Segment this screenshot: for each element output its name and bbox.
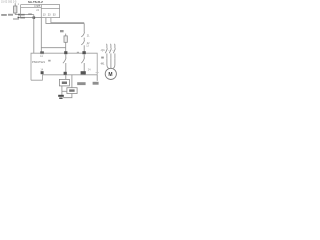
svg-text:Logik: Logik (34, 4, 41, 8)
svg-text:-Q1: -Q1 (100, 48, 105, 52)
estop contact S1 (81, 32, 84, 37)
label under wire (13, 18, 19, 20)
terminal 13 (64, 51, 67, 54)
wire top bus (21, 4, 42, 6)
wire coil to ground (61, 86, 63, 96)
motor M1 (105, 68, 116, 79)
relay contact K2 (83, 54, 85, 58)
relay contact K1 (65, 54, 67, 58)
label dash (48, 60, 50, 62)
vertical link wire (20, 5, 22, 18)
link dash 1 (108, 49, 109, 51)
wire motor feed 1 (107, 59, 109, 69)
safety relay box PSR outline (31, 53, 97, 80)
wire 0V drop (96, 75, 98, 81)
junction tick (96, 71, 99, 73)
label 24V left (1, 14, 7, 16)
fuse F1 (65, 34, 67, 36)
label terminal (60, 30, 64, 32)
pin tick 23 (77, 52, 79, 53)
wire horizontal mid (41, 47, 65, 49)
svg-text:-M1: -M1 (100, 62, 105, 66)
mark A1 (101, 57, 104, 59)
label 24VDC (77, 82, 85, 85)
wire label dash (28, 14, 32, 16)
wire BN (15, 14, 34, 16)
link dash 2 (112, 49, 113, 51)
wire aux to ground (63, 94, 72, 98)
sensor B1 (14, 3, 16, 6)
terminal 14 (64, 72, 67, 75)
wire right drop (83, 23, 85, 32)
node junction (33, 16, 36, 19)
wire coil drop (65, 75, 67, 80)
contactor pole 1 (105, 44, 108, 49)
contactor pole 3 (113, 44, 116, 49)
wire vertical from box left (40, 18, 42, 54)
aux box K2 (67, 88, 77, 94)
wire motor feed 3 (113, 59, 115, 69)
svg-text:PSR-PS21: PSR-PS21 (32, 60, 46, 64)
wire vertical left drop (33, 15, 35, 54)
contactor pole 2 (109, 44, 112, 49)
wire pin 13 stub (46, 18, 84, 24)
svg-text:31 02 032 2-5: 31 02 032 2-5 (1, 1, 17, 4)
safety switch box SA (41, 5, 59, 18)
svg-text:SA-TS-FLZ: SA-TS-FLZ (28, 0, 43, 4)
terminal A2 (41, 71, 44, 74)
ground (58, 95, 64, 97)
contactor coil K1 box (59, 79, 69, 86)
wire second bus (21, 7, 42, 9)
wire pin 23 stub (51, 18, 84, 23)
wire BU (18, 17, 42, 19)
label 0V (93, 82, 99, 85)
wire aux drop (71, 75, 73, 88)
terminal arrow A1 (40, 51, 44, 54)
terminal 24 (81, 71, 86, 74)
wire stub to aux box (62, 90, 67, 92)
svg-text:M: M (108, 72, 112, 78)
terminal 23 (82, 51, 85, 54)
wire fuse to relay (65, 48, 67, 54)
estop contact S2 (81, 40, 84, 45)
wire motor feed 2 (110, 59, 112, 69)
